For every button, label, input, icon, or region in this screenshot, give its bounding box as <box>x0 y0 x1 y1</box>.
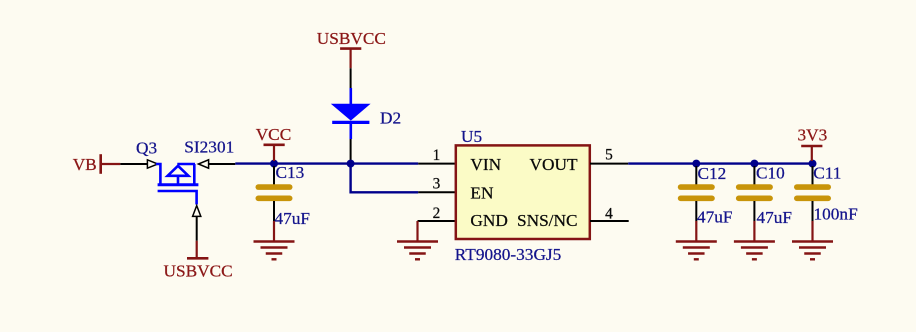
svg-text:47uF: 47uF <box>275 209 311 228</box>
ground under C11 <box>792 242 833 260</box>
svg-text:4: 4 <box>605 205 613 222</box>
wire VB to Q3 source <box>101 163 121 165</box>
svg-text:VOUT: VOUT <box>530 155 578 174</box>
ground under C10 <box>734 242 775 260</box>
svg-text:C10: C10 <box>756 163 785 182</box>
svg-text:U5: U5 <box>461 127 482 146</box>
node C10 junction <box>750 160 758 168</box>
power port VCC <box>256 125 292 161</box>
svg-text:RT9080-33GJ5: RT9080-33GJ5 <box>455 245 562 264</box>
svg-text:VB: VB <box>73 155 97 174</box>
pin 4 SNS/NC <box>590 205 629 222</box>
wire C12 to ground <box>695 221 697 241</box>
diode D2 <box>331 88 371 139</box>
pin D2 cathode <box>350 139 352 161</box>
node D2 junction <box>347 160 355 168</box>
svg-text:100nF: 100nF <box>814 205 858 224</box>
ground under pin 2 <box>397 242 438 260</box>
wire D2 node to pin 1 <box>351 162 419 164</box>
pin 5 VOUT <box>590 147 628 164</box>
capacitor C12 <box>678 166 715 221</box>
svg-text:D2: D2 <box>380 108 401 127</box>
ground under C12 <box>676 242 717 260</box>
svg-text:3: 3 <box>433 176 441 193</box>
wire C13 to ground <box>273 221 275 241</box>
svg-text:VCC: VCC <box>256 125 292 144</box>
node C12 junction <box>692 160 700 168</box>
wire Q3 gate to USBVCC <box>196 241 198 258</box>
ground under C13 <box>254 242 295 260</box>
power port 3V3 <box>798 126 828 161</box>
wire C10 to ground <box>753 221 755 241</box>
pin 1 VIN <box>418 147 456 164</box>
svg-text:Q3: Q3 <box>136 138 157 157</box>
node VCC junction <box>270 160 278 168</box>
svg-text:5: 5 <box>605 147 613 164</box>
pin Q3 source (1) <box>120 160 158 168</box>
pin Q3 gate (3) <box>193 206 201 241</box>
capacitor C11 <box>794 166 831 221</box>
svg-text:2: 2 <box>433 205 441 222</box>
wire C11 to ground <box>811 221 813 241</box>
capacitor C10 <box>736 166 773 221</box>
svg-text:USBVCC: USBVCC <box>317 29 386 48</box>
svg-text:VIN: VIN <box>470 155 501 174</box>
svg-text:C13: C13 <box>276 163 305 182</box>
pin Q3 drain (2) <box>198 160 235 168</box>
power port USBVCC top <box>317 29 386 68</box>
svg-text:3V3: 3V3 <box>798 126 828 145</box>
power port USBVCC bottom <box>164 258 233 280</box>
wire pin 2 to ground <box>416 221 418 241</box>
pin 2 GND <box>418 205 457 222</box>
svg-text:47uF: 47uF <box>757 208 793 227</box>
wire EN branch <box>351 164 419 193</box>
IC U5 RT9080-33GJ5 <box>456 145 590 239</box>
pin D2 anode <box>350 68 352 88</box>
svg-text:GND: GND <box>470 211 507 230</box>
wire VCC node to D2 node <box>274 162 351 164</box>
svg-text:C12: C12 <box>698 164 727 183</box>
power port VB <box>73 154 101 174</box>
svg-text:EN: EN <box>470 184 494 203</box>
svg-text:47uF: 47uF <box>697 208 733 227</box>
svg-text:C11: C11 <box>813 163 841 182</box>
capacitor C13 <box>256 166 293 221</box>
transistor Q3 (P-MOSFET SI2301) <box>156 164 199 205</box>
svg-text:USBVCC: USBVCC <box>164 262 233 281</box>
wire Q3 drain to VCC node <box>235 162 274 164</box>
wire VOUT to 3V3 <box>628 162 812 164</box>
svg-text:1: 1 <box>433 147 441 164</box>
svg-text:SI2301: SI2301 <box>184 137 234 156</box>
node C11 junction (3V3) <box>809 160 817 168</box>
pin 3 EN <box>418 176 456 193</box>
svg-text:SNS/NC: SNS/NC <box>517 211 578 230</box>
